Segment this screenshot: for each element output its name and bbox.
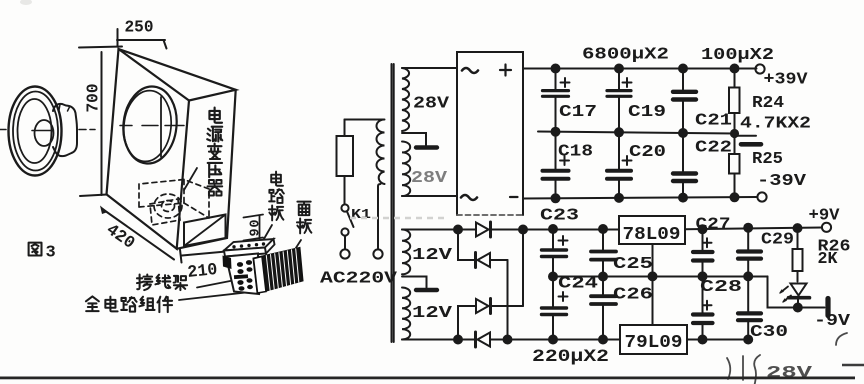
diode D4: [476, 332, 508, 347]
svg-text:C22: C22: [695, 139, 732, 158]
svg-text:C19: C19: [628, 103, 666, 122]
regulator 78L09: [619, 216, 685, 244]
strip screws: [232, 242, 265, 248]
node LED cathode: [794, 304, 802, 312]
svg-text:C26: C26: [613, 286, 653, 305]
cabinet speaker hole inner rim: [120, 88, 174, 164]
svg-text:C20: C20: [629, 143, 666, 162]
+39V rail: [523, 68, 757, 70]
module terminal strip top: [224, 239, 274, 251]
svg-text:28V: 28V: [766, 364, 813, 383]
node C30 bottom: [744, 336, 752, 344]
LED indicator diode: [789, 284, 810, 308]
-9V terminal bar: [825, 299, 830, 316]
cabinet front face: [107, 49, 190, 249]
-12V rail into 79L09: [508, 339, 621, 341]
node C25 top: [599, 225, 607, 233]
bridge ~ top: [462, 68, 478, 73]
svg-text:+39V: +39V: [764, 71, 809, 90]
label 电路板 (circuit board), vertical: [269, 172, 284, 221]
node C29 top: [744, 224, 752, 232]
svg-text:250: 250: [125, 19, 154, 38]
svg-text:C29: C29: [761, 231, 794, 250]
faint smudge top-left: [20, 0, 32, 5]
wire AC input left: [344, 120, 346, 137]
wire fuse to switch: [344, 176, 346, 204]
node R25 bottom: [731, 193, 739, 201]
wire 12V top: [402, 229, 476, 231]
node C28 bottom: [699, 336, 707, 344]
+9V terminal: [822, 223, 831, 232]
loudspeaker outer rim: [9, 87, 62, 176]
svg-text:210: 210: [187, 261, 219, 283]
-39V rail: [523, 197, 757, 199]
capacitor C28: [693, 277, 713, 340]
svg-text:12V: 12V: [412, 304, 453, 323]
bridge box bottom dashed: [457, 214, 523, 216]
capacitor C17: [543, 69, 570, 132]
-9V rail from 79L09: [687, 339, 748, 341]
node C27/C28: [699, 272, 707, 280]
transformer primary winding: [377, 120, 385, 185]
node -12V junction: [504, 336, 512, 344]
svg-text:C27: C27: [696, 216, 731, 235]
loudspeaker dust cap: [35, 120, 54, 146]
svg-text:R24: R24: [752, 94, 784, 113]
dimension 700 line: [79, 47, 122, 197]
bridge + top: [500, 65, 511, 76]
resistor R26: [793, 228, 803, 281]
node C20 bottom: [615, 194, 623, 202]
leader line panel label: [291, 240, 301, 256]
wire 0V elbow to -9V terminal: [768, 276, 825, 307]
node C23/C24: [549, 273, 557, 281]
leader line full-assembly label: [179, 291, 259, 300]
dimension 420 line: [100, 206, 174, 260]
node C17 top: [552, 65, 560, 73]
svg-text:K1: K1: [351, 207, 371, 223]
svg-text:90: 90: [249, 220, 264, 237]
regulator 79L09: [620, 325, 687, 354]
wire 12V bottom: [402, 339, 474, 341]
-39V terminal: [757, 192, 766, 201]
wire primary top: [345, 119, 384, 121]
node regulator ground: [649, 272, 657, 280]
node C17/C18 mid: [552, 128, 560, 136]
node R26 top: [794, 224, 802, 232]
capacitor C18: [543, 132, 570, 199]
LED arrows: [779, 287, 791, 303]
0V mid rail upper section: [538, 132, 735, 134]
resistor R24: [729, 69, 740, 155]
module heatsink: [254, 248, 303, 293]
module terminal strip front: [224, 248, 266, 257]
ground at R24/R25 junction: [735, 135, 757, 137]
label 接线架 (terminal rack): [137, 274, 187, 290]
svg-text:3: 3: [46, 244, 56, 263]
+9V rail: [685, 228, 822, 230]
svg-text:28V: 28V: [411, 169, 448, 188]
bridge rectifier box: [457, 52, 523, 215]
svg-text:700: 700: [85, 84, 104, 113]
node C21 top: [679, 65, 687, 73]
node C22 bottom: [679, 194, 687, 202]
AC220V terminal left: [340, 249, 349, 258]
svg-text:C21: C21: [695, 112, 732, 131]
node C18 bottom: [552, 194, 560, 202]
switch K1: [341, 204, 353, 235]
capacitor C21: [673, 69, 696, 134]
svg-text:C25: C25: [613, 255, 653, 274]
svg-text:-9V: -9V: [814, 312, 851, 331]
label 电源变压器 (power transformer), vertical: [207, 108, 222, 196]
+12V rectified rail: [523, 229, 619, 231]
resistor R25: [729, 154, 740, 197]
node C25/C26: [599, 273, 607, 281]
diode D3: [476, 299, 523, 314]
cabinet side face: [177, 90, 236, 249]
bottom page border: [0, 377, 855, 380]
capacitor C30: [738, 276, 761, 339]
fuse: [337, 136, 354, 176]
node C21/C22 mid: [679, 129, 687, 137]
svg-text:AC220V: AC220V: [320, 269, 397, 288]
transformer core: [392, 64, 394, 342]
svg-text:12V: 12V: [412, 246, 453, 265]
svg-text:C17: C17: [559, 103, 597, 122]
capacitor C27: [693, 229, 713, 277]
loudspeaker cone: [18, 99, 52, 163]
capacitor C25: [591, 229, 616, 276]
node +12V junction: [519, 226, 527, 234]
wire winding-bottom to D3: [458, 306, 476, 340]
bridge - bottom: [510, 196, 518, 198]
wire 28V bottom to bridge: [402, 195, 457, 197]
AC220V terminal right: [373, 249, 382, 258]
node C27 top: [699, 225, 707, 233]
dimension 250: [117, 29, 167, 49]
ground upper center tap: [416, 145, 437, 149]
node C24 bottom: [549, 336, 557, 344]
capacitor C24: [542, 276, 568, 339]
svg-text:+9V: +9V: [809, 207, 841, 226]
capacitor C20: [607, 132, 632, 198]
module strip end: [265, 239, 275, 254]
capacitor C29: [738, 228, 761, 277]
ground lower center tap: [416, 288, 437, 292]
handwritten pen marks bottom right: [727, 333, 847, 384]
secondary winding 28V lower: [402, 142, 410, 196]
capacitor C19: [607, 69, 632, 133]
diode D1: [476, 222, 523, 237]
wire D3 output to +12 rail: [522, 230, 524, 307]
svg-text:C24: C24: [558, 275, 598, 294]
cabinet speaker hole outer: [120, 84, 181, 166]
capacitor C26: [591, 276, 616, 339]
svg-text:6800µX2: 6800µX2: [582, 46, 669, 65]
svg-text:2K: 2K: [818, 250, 839, 269]
secondary winding 12V upper: [402, 230, 410, 275]
svg-text:28V: 28V: [413, 95, 450, 114]
cabinet top face: [119, 49, 236, 101]
wire switch to AC terminal: [344, 236, 346, 249]
svg-text:100µX2: 100µX2: [701, 46, 774, 65]
transformer leader line: [184, 168, 197, 190]
svg-text:R25: R25: [752, 150, 783, 169]
node C23 top: [549, 225, 557, 233]
wire AC terminal right to primary: [378, 184, 381, 249]
wire D2 to minus rail: [507, 260, 509, 340]
0V mid rail lower section: [553, 276, 768, 278]
module terminals: [234, 260, 253, 291]
node C19 top: [615, 65, 623, 73]
svg-text:-39V: -39V: [757, 172, 807, 191]
wire winding-top to D2: [458, 230, 474, 261]
diode D2: [476, 253, 508, 268]
capacitor C23: [542, 229, 568, 276]
wire 28V top to bridge: [402, 67, 457, 69]
secondary winding 28V upper: [402, 68, 409, 131]
node C19/C20 mid: [615, 128, 623, 136]
svg-text:C28: C28: [700, 278, 742, 297]
node winding-bottom junction: [454, 336, 462, 344]
svg-text:4.7KX2: 4.7KX2: [740, 115, 811, 134]
secondary winding 12V lower: [402, 288, 410, 340]
capacitor C22: [673, 133, 696, 198]
cutout diagonal: [184, 215, 226, 247]
dimension 210 line: [180, 249, 259, 263]
node R24 top: [731, 65, 739, 73]
regulator ground pin wire: [652, 244, 654, 325]
svg-text:220µX2: 220µX2: [532, 347, 609, 367]
node R24/R25 mid junction: [731, 130, 738, 137]
center tap lower: [402, 277, 427, 288]
bridge ~ bottom: [461, 195, 477, 200]
faint watermark dashes: [350, 217, 446, 220]
svg-text:78L09: 78L09: [623, 225, 681, 245]
hole centerline: [120, 125, 184, 127]
svg-text:79L09: 79L09: [625, 333, 683, 353]
terminal cutout opening: [184, 215, 226, 247]
label 图3 (Figure 3): [29, 243, 56, 263]
dashed internal transformer: [139, 180, 209, 226]
heatsink mounting plate: [254, 257, 267, 294]
module body front face: [226, 254, 259, 295]
+39V terminal: [755, 64, 764, 73]
svg-text:C18: C18: [558, 143, 593, 162]
stray mark bottom right: [842, 364, 864, 366]
leader line circuit-board label: [261, 225, 272, 244]
svg-text:C23: C23: [540, 207, 579, 226]
module left end cap: [223, 256, 232, 270]
center tap upper: [402, 133, 426, 145]
amplifier module assembly: [223, 239, 303, 294]
speaker axis centerline: [0, 130, 95, 131]
label 全电路组件 (complete circuit assembly): [86, 296, 172, 312]
node C26 bottom: [599, 336, 607, 344]
loudspeaker magnet: [53, 104, 77, 156]
leader line terminal-rack label: [197, 278, 248, 288]
label 面板 (panel), vertical: [297, 202, 311, 234]
dimension 90 bracket: [244, 215, 264, 241]
heatsink fins: [266, 249, 299, 290]
svg-text:C30: C30: [750, 323, 788, 342]
node winding-top junction: [454, 226, 462, 234]
loudspeaker inner rim: [13, 92, 58, 171]
node C29/C30: [744, 272, 752, 280]
